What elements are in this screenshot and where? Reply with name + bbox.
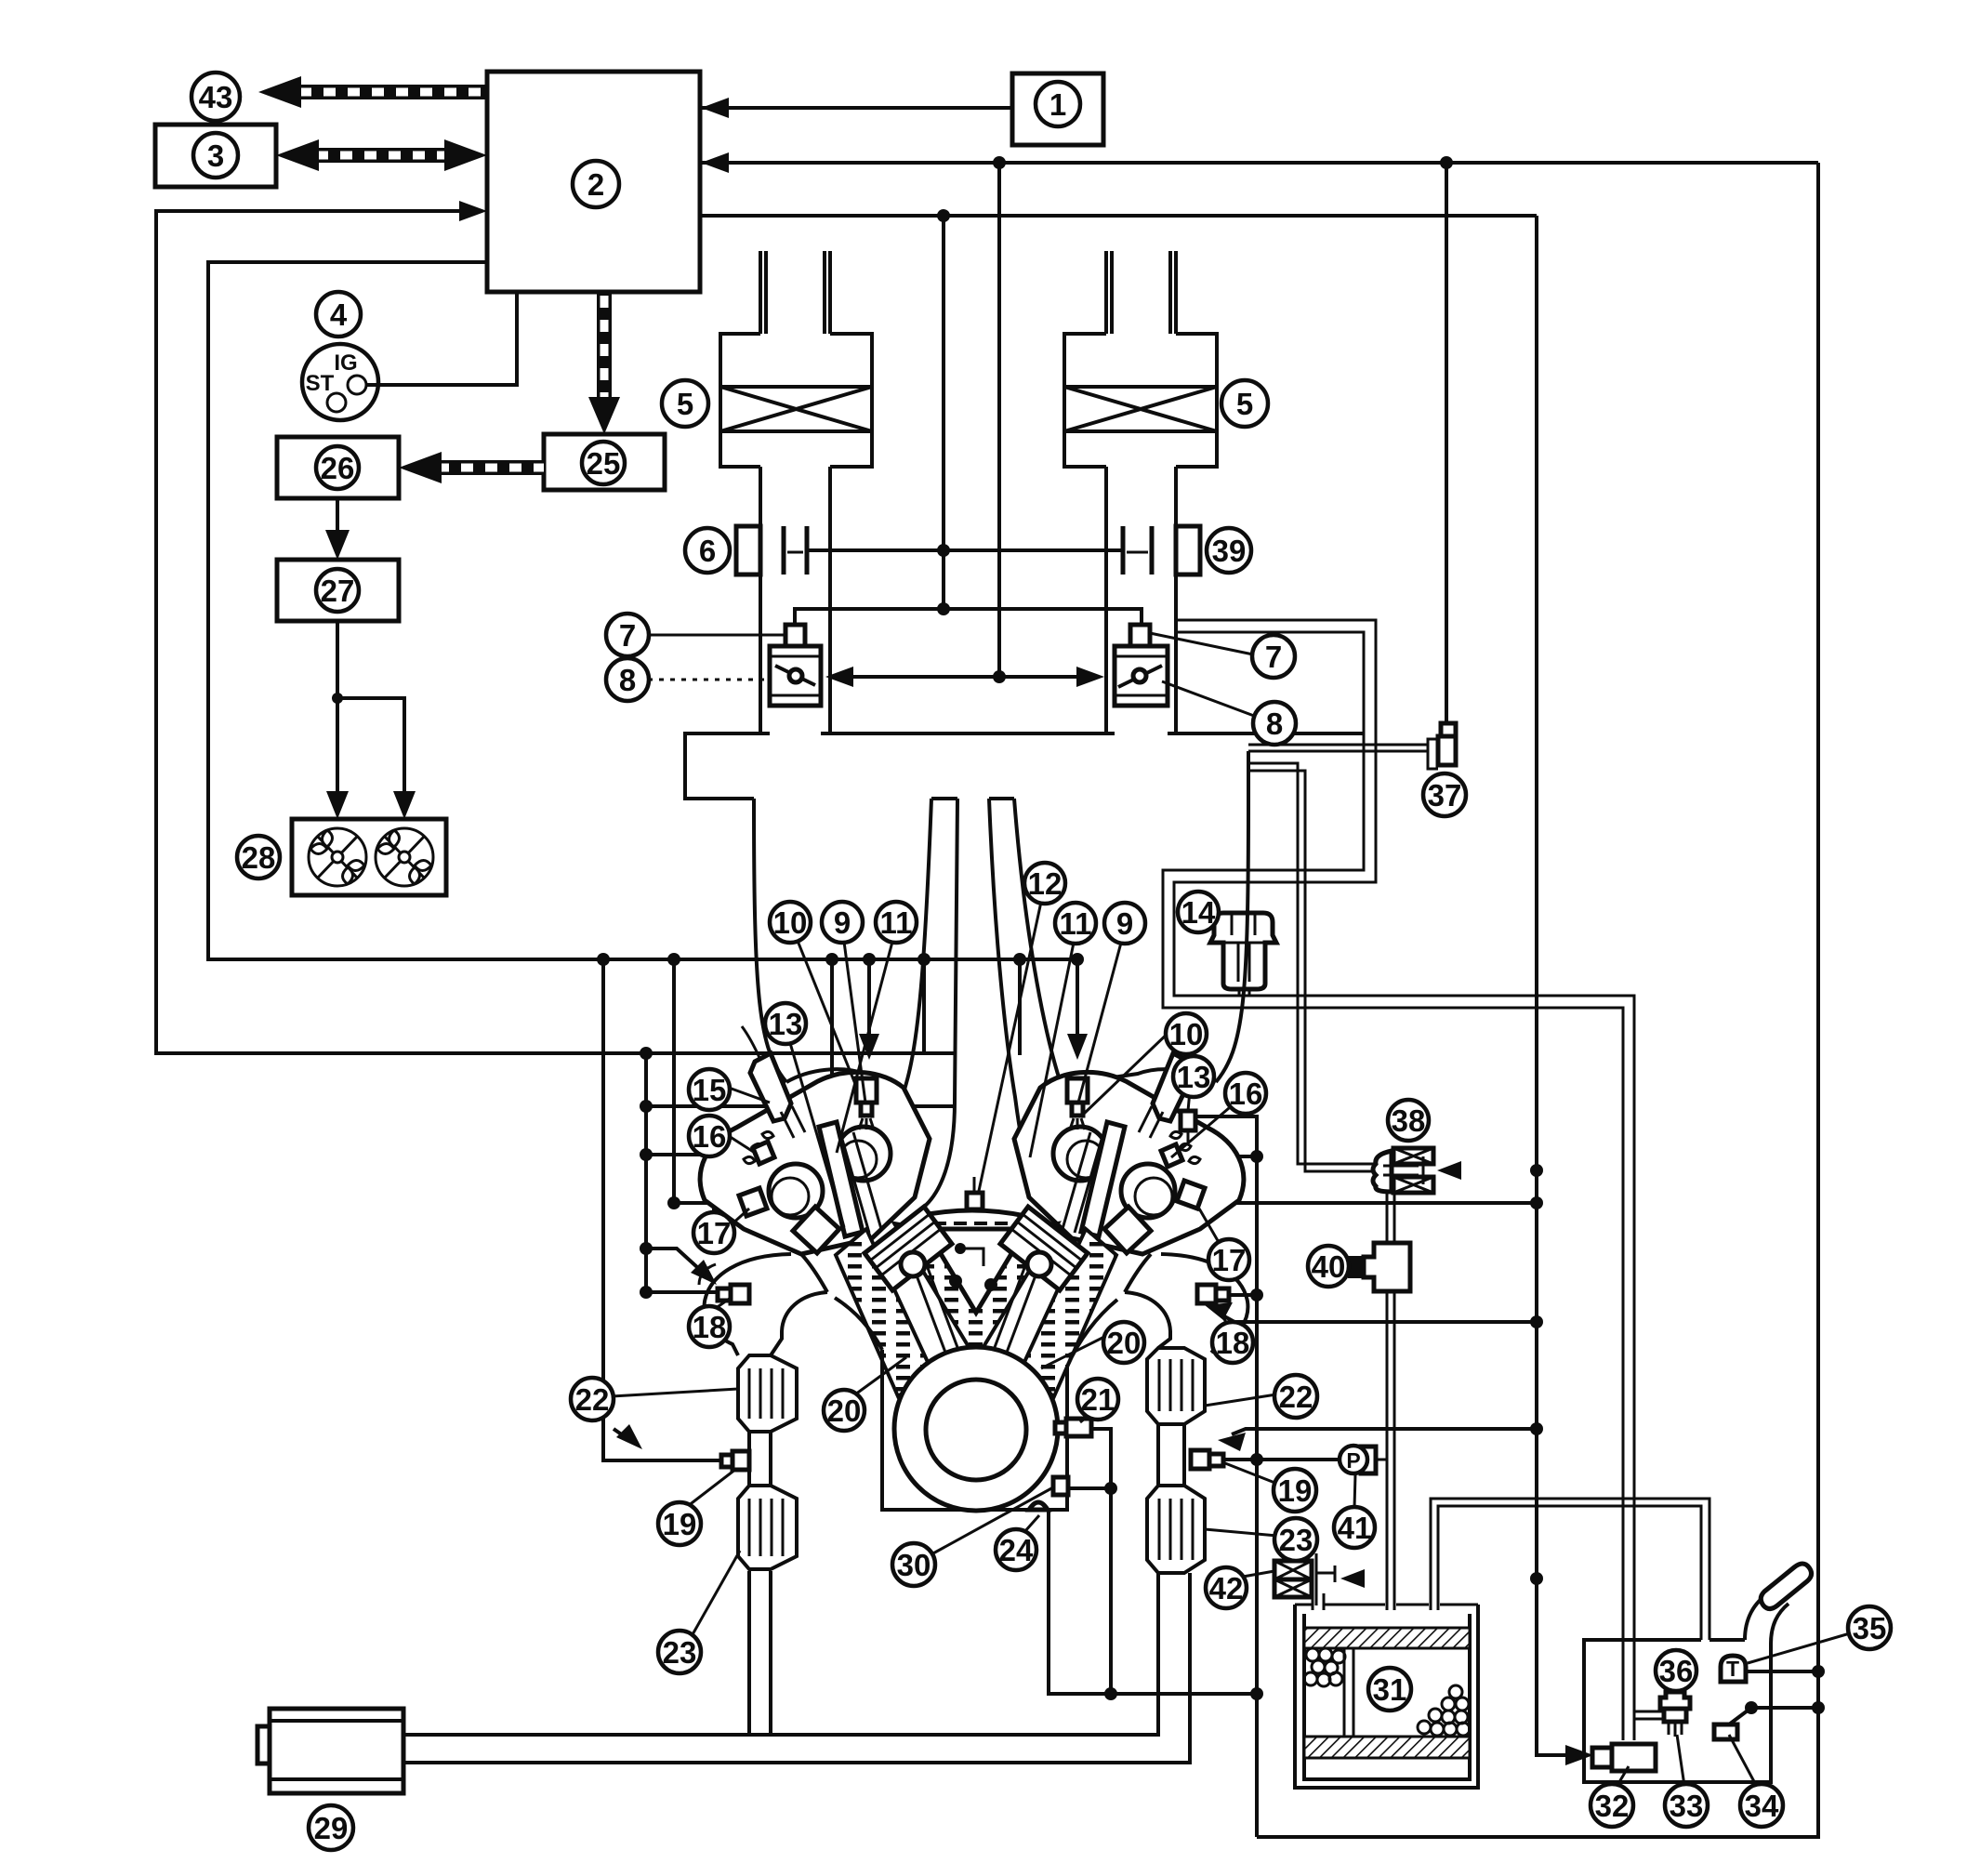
- purge solenoid valve 38: [1373, 1148, 1461, 1193]
- pointer 18 left: [712, 1298, 731, 1311]
- box 26: [277, 437, 399, 498]
- wire: 19R heater arrow line to x=1653: [1232, 1429, 1537, 1434]
- svg-text:37: 37: [1428, 778, 1462, 812]
- pipe: 38 down through 40 to canister: [1387, 1192, 1394, 1610]
- pointer 13 right: [1188, 1080, 1191, 1111]
- oil pressure switch 21: [1066, 1419, 1091, 1436]
- svg-text:16: 16: [1229, 1077, 1263, 1111]
- node on y=175 wire at x=1556: [1440, 156, 1453, 169]
- wire: drops to ignition coils: [830, 959, 834, 1120]
- pencil coil 11 left: [819, 1122, 863, 1236]
- node on y=175 wire at x=1075: [993, 156, 1006, 169]
- pointer 33: [1677, 1735, 1684, 1786]
- filler cap: [1761, 1564, 1811, 1609]
- svg-text:8: 8: [1266, 707, 1283, 741]
- svg-text:36: 36: [1659, 1654, 1694, 1688]
- charcoal canister 31: [1295, 1605, 1478, 1788]
- catalytic converter 22 right: [1147, 1348, 1205, 1424]
- vacuum switch 40: [1364, 1243, 1410, 1291]
- relay box 25: [544, 434, 665, 490]
- wire: left sensor harness vertical x=695 with rows: [640, 1047, 653, 1060]
- spark plug boot 15: [750, 1053, 791, 1121]
- pointer 11 left: [837, 942, 892, 1153]
- svg-text:27: 27: [321, 574, 355, 608]
- svg-text:P: P: [1346, 1448, 1360, 1473]
- pointer 23 right: [1205, 1529, 1277, 1536]
- svg-text:34: 34: [1745, 1789, 1779, 1823]
- MAP sensor 14 body: [1210, 913, 1276, 989]
- pointer 7 left: [648, 634, 785, 637]
- wire: row to O2 sensor 18 left: [640, 1286, 653, 1299]
- svg-text:10: 10: [773, 905, 808, 940]
- right exhaust pipe walls: [1158, 1424, 1184, 1486]
- pointer 35: [1748, 1633, 1850, 1663]
- cam sensor 17 right: [1177, 1181, 1205, 1209]
- svg-text:11: 11: [1060, 906, 1092, 941]
- wire: 18R heater arrow to x=1653: [1218, 1313, 1537, 1322]
- svg-text:7: 7: [619, 618, 636, 653]
- wire: crank sensor 30 row: [1067, 1486, 1111, 1490]
- svg-text:4: 4: [330, 297, 348, 332]
- svg-text:5: 5: [677, 387, 693, 421]
- svg-text:13: 13: [1177, 1060, 1211, 1094]
- svg-text:13: 13: [769, 1007, 803, 1041]
- muffler 29: [270, 1709, 403, 1793]
- wire: row to knock sensor arrow (18 left): [640, 1242, 653, 1255]
- O2 sensor 19 right: [1191, 1450, 1209, 1469]
- knock sensor 16 left: [753, 1142, 774, 1164]
- arrow 26 down to 27: [336, 498, 339, 547]
- pointer 42: [1243, 1571, 1274, 1577]
- intake port tray with fuel dashes: [918, 1210, 1025, 1236]
- svg-text:30: 30: [897, 1548, 931, 1582]
- catalytic converter 23 left: [738, 1486, 797, 1569]
- fuel pressure sensor 41 (P): [1374, 1459, 1387, 1461]
- pointer 41: [1354, 1474, 1355, 1508]
- svg-text:18: 18: [693, 1310, 727, 1344]
- canister stubs: [1313, 1593, 1324, 1610]
- wire: box2 to corner x=1653 (y=232): [701, 214, 1537, 218]
- pointer 22 right: [1205, 1394, 1276, 1406]
- svg-text:9: 9: [834, 905, 851, 940]
- wire: ECU box2 to right border top (y=175): [701, 161, 1818, 165]
- cam sensor 13 right small: [1181, 1111, 1195, 1130]
- svg-text:6: 6: [699, 534, 716, 568]
- pointer 21: [1080, 1415, 1089, 1422]
- box 3 (data link connector): [155, 125, 276, 187]
- pointer 15: [729, 1088, 770, 1103]
- left cylinder wall hatched: [836, 1229, 932, 1396]
- pointer 20 right: [1041, 1335, 1108, 1368]
- svg-text:23: 23: [663, 1635, 697, 1670]
- spark plug boot 15 right: [1153, 1053, 1194, 1121]
- svg-text:17: 17: [1212, 1243, 1247, 1277]
- svg-text:19: 19: [1278, 1473, 1313, 1508]
- right cylinder wall hatched: [1020, 1229, 1116, 1396]
- pointer 19 right: [1225, 1463, 1277, 1484]
- svg-text:42: 42: [1209, 1571, 1244, 1605]
- wire: inner-left harness: box2 left y=282 down x=224 across injector feed y=1032: [208, 262, 1077, 1049]
- wire: 19L heater arrow: [614, 1429, 632, 1442]
- vent solenoid valve 42: [1274, 1553, 1365, 1605]
- wire: throttle-to-throttle line with two arrowheads (y=728): [841, 675, 1089, 679]
- wire: vertical x=1015 from y=232 to TPS interconnect: [942, 216, 945, 609]
- hose: manifold - around MAP sensor 14 - to fuel tank: [1163, 620, 1634, 1740]
- svg-text:5: 5: [1236, 387, 1253, 421]
- throttle body left with TPS 7 and plate 8: [785, 625, 805, 646]
- arrowhead into box2 at y=116: [701, 98, 729, 118]
- pointer 10 right: [1084, 1028, 1173, 1114]
- left cover ribs: [744, 1131, 773, 1163]
- wire: row from O2 sensor 18R: [1216, 1293, 1257, 1297]
- rollover valve 36/33: [1634, 1711, 1664, 1719]
- catalytic converter 22 left: [738, 1355, 797, 1432]
- crankshaft: [894, 1347, 1058, 1511]
- EGR hose connector bracket: [1428, 739, 1438, 769]
- wire: x=725 drop to cam sensor 17 arrow row: [672, 959, 676, 1203]
- pointer 32: [1617, 1766, 1629, 1787]
- svg-text:1: 1: [1049, 87, 1066, 122]
- svg-text:41: 41: [1338, 1511, 1372, 1545]
- wire: outer-left harness: box2 left y=242 down x=168 across y=1133: [156, 211, 955, 1053]
- svg-text:8: 8: [619, 663, 636, 697]
- spark plug wedge left: [793, 1207, 839, 1253]
- svg-text:24: 24: [999, 1533, 1034, 1567]
- pointer 17 right: [1199, 1209, 1220, 1244]
- wire: arrow down to left injector 9: [867, 959, 871, 1049]
- spark plug stem left: [841, 1132, 881, 1233]
- pointer 9 right: [1078, 943, 1121, 1103]
- svg-text:20: 20: [827, 1394, 862, 1428]
- svg-text:40: 40: [1312, 1249, 1346, 1284]
- svg-text:35: 35: [1853, 1611, 1887, 1645]
- left valve cover: [700, 1072, 930, 1254]
- wire T to right border: [1746, 1670, 1818, 1673]
- wire: oil press switch 21 down x=1195: [1091, 1429, 1111, 1694]
- svg-text:18: 18: [1216, 1326, 1250, 1360]
- svg-text:19: 19: [663, 1507, 697, 1541]
- left cam journals: [837, 1127, 891, 1181]
- catalytic converter 23 right: [1147, 1486, 1205, 1573]
- svg-text:25: 25: [587, 446, 621, 481]
- pointer 7 right: [1150, 633, 1253, 654]
- svg-text:22: 22: [575, 1382, 610, 1417]
- throttle body right with TPS 7 and plate 8: [1130, 625, 1150, 646]
- hose: plenum to EGR valve 37: [1248, 745, 1428, 751]
- node on y=232 wire at x=1015: [937, 209, 950, 222]
- svg-text:12: 12: [1028, 866, 1063, 901]
- svg-text:17: 17: [697, 1216, 732, 1250]
- svg-text:21: 21: [1081, 1382, 1115, 1417]
- air cleaner 5 left: [720, 251, 872, 733]
- MAP sensor 14 stub: [1239, 981, 1249, 996]
- bolt dots in valley: [949, 1275, 962, 1288]
- arrowhead into box2 right edge at y=175: [701, 152, 729, 173]
- O2 sensor 19 left: [733, 1451, 749, 1470]
- wire: row with arrow into 17R from x=1653: [1181, 1201, 1537, 1205]
- exhaust pipe from muffler to pipes: [403, 1573, 1190, 1763]
- pointer 12: [979, 902, 1041, 1191]
- svg-text:T: T: [1726, 1657, 1739, 1681]
- wire: x=649 drop to O2 sensor 19 left: [603, 959, 731, 1460]
- svg-text:ST: ST: [306, 371, 335, 396]
- intake air temp sensor 39: [1123, 526, 1152, 575]
- pointer 9 left: [844, 942, 865, 1103]
- svg-text:10: 10: [1169, 1017, 1204, 1051]
- right valve cover: [1014, 1072, 1244, 1254]
- pointer 13 left: [790, 1043, 844, 1227]
- injector 9 left: [856, 1078, 877, 1103]
- pointer 24: [1024, 1515, 1039, 1532]
- node x=1653 junctions: [1530, 1164, 1543, 1177]
- wire: 19R sensor to P sender 41: [1224, 1458, 1344, 1461]
- fuel pump 32: [1612, 1744, 1656, 1771]
- surge tank plenum: [685, 733, 1364, 799]
- wire: vertical x=1075 from y=175 to throttle opener line: [997, 163, 1001, 677]
- wire: row from cam sensor 16R: [1170, 1155, 1257, 1158]
- svg-text:9: 9: [1116, 906, 1133, 941]
- pointer 30: [931, 1487, 1053, 1554]
- right piston: [1000, 1207, 1088, 1290]
- pointer 8 right: [1162, 681, 1254, 716]
- knock sensor 24 bump: [1029, 1502, 1048, 1510]
- intake manifold left channel walls: [754, 799, 931, 1151]
- svg-text:7: 7: [1265, 640, 1282, 674]
- svg-text:14: 14: [1181, 895, 1216, 930]
- svg-text:31: 31: [1373, 1672, 1407, 1707]
- svg-text:38: 38: [1392, 1103, 1426, 1138]
- sensor 12 stub on runner: [967, 1193, 983, 1209]
- wires 27 to fans: [336, 621, 339, 807]
- svg-text:16: 16: [693, 1119, 727, 1154]
- injector feed nodes: [597, 953, 610, 966]
- fan assembly 28: [292, 819, 446, 895]
- fuel gauge sender 34: [1714, 1724, 1737, 1739]
- right exhaust runner: [1125, 1254, 1247, 1353]
- striped arrow 25 to 26: [399, 452, 544, 483]
- engine top outline (head decks): [786, 1069, 1216, 1088]
- wire: right border vertical x=1956 down and bottom border to x=1352: [1257, 163, 1818, 1837]
- pointer 19 left: [688, 1469, 736, 1506]
- wire: vertical x=1556 from y=175 to EGR valve 37: [1445, 163, 1448, 723]
- left piston: [865, 1207, 952, 1290]
- pointer 22 left: [612, 1389, 738, 1396]
- hose: plenum down to solenoid valve 38: [1249, 763, 1374, 1171]
- EGR valve 37: [1441, 723, 1456, 736]
- pointer 34: [1729, 1735, 1757, 1787]
- fuel temp sensor 35 (T): [1721, 1656, 1746, 1682]
- pointer 16 right: [1171, 1108, 1229, 1157]
- wire: vertical x=1653 from y=232 down, arrow into fuel pump 32: [1537, 216, 1580, 1755]
- left exhaust runner: [705, 1254, 827, 1355]
- pointer 16 left: [729, 1136, 755, 1153]
- injector 9 right: [1067, 1078, 1088, 1103]
- canister pipe up-over to tank line: [1431, 1499, 1709, 1640]
- crank angle sensor 30: [1053, 1477, 1068, 1495]
- svg-text:11: 11: [880, 905, 913, 940]
- interconnect wire 6 to 39: [807, 548, 1123, 552]
- left exhaust pipe walls: [749, 1571, 771, 1735]
- svg-text:22: 22: [1279, 1380, 1313, 1414]
- svg-text:26: 26: [321, 451, 355, 485]
- O2 sensor 18 left: [731, 1285, 749, 1303]
- svg-text:15: 15: [693, 1073, 727, 1107]
- striped arrow 43 out of box2: [258, 76, 487, 108]
- svg-text:29: 29: [314, 1811, 349, 1845]
- striped double arrow between 3 and 2: [276, 139, 487, 171]
- svg-text:20: 20: [1107, 1326, 1142, 1360]
- pointer 20 left: [855, 1357, 906, 1394]
- svg-text:32: 32: [1595, 1789, 1630, 1823]
- 40 black connector: [1348, 1256, 1364, 1278]
- tank outline with filler neck: [1584, 1640, 1771, 1782]
- air cleaner 5 right: [1064, 251, 1217, 733]
- intake air temp sensor 6: [736, 526, 760, 575]
- ECU box 2: [487, 72, 700, 292]
- pointer 11 right: [1030, 943, 1074, 1157]
- svg-text:43: 43: [199, 80, 233, 114]
- wire: box1 to box2 (y=116): [701, 106, 1012, 110]
- intake manifold right channel walls: [1014, 799, 1248, 1153]
- pointer 23 left: [692, 1551, 740, 1636]
- pencil coil 11 right: [1081, 1122, 1125, 1236]
- striped arrow box2 down to relay 25: [588, 292, 620, 434]
- crankcase block: [835, 1298, 1117, 1510]
- box 27: [277, 560, 399, 621]
- wire: knock 24 down x=1128 and across to x=1352: [1049, 1512, 1257, 1694]
- pointer 18 right: [1216, 1303, 1229, 1328]
- pointer 17 left: [731, 1209, 749, 1225]
- exhaust crossover stub left: [699, 1264, 716, 1285]
- svg-text:39: 39: [1212, 534, 1247, 568]
- knock sensor 16 right: [1161, 1144, 1182, 1167]
- svg-text:IG: IG: [334, 350, 357, 376]
- svg-text:28: 28: [242, 840, 276, 875]
- O2 sensor 18 right: [1197, 1285, 1216, 1303]
- wire: TPS interconnect (y=655): [795, 609, 1142, 625]
- box 1 (battery): [1012, 73, 1103, 145]
- wire from ignition switch to box2: [366, 292, 517, 385]
- ignition switch 4: [302, 344, 378, 420]
- cam sensor 17 left: [739, 1188, 767, 1216]
- pointer 8 left dotted: [648, 679, 770, 681]
- center runner pipes: [917, 799, 1047, 1214]
- pointer 10 left: [798, 941, 855, 1084]
- svg-text:23: 23: [1279, 1523, 1313, 1557]
- wire: right harness vertical x=1352 from row y=1201 to bottom border: [1084, 1116, 1257, 1837]
- svg-text:33: 33: [1670, 1789, 1704, 1823]
- svg-text:2: 2: [587, 167, 604, 202]
- V-valley hatched walls: [894, 1223, 1058, 1359]
- svg-text:3: 3: [207, 139, 224, 173]
- spark plug wedge right: [1104, 1207, 1151, 1253]
